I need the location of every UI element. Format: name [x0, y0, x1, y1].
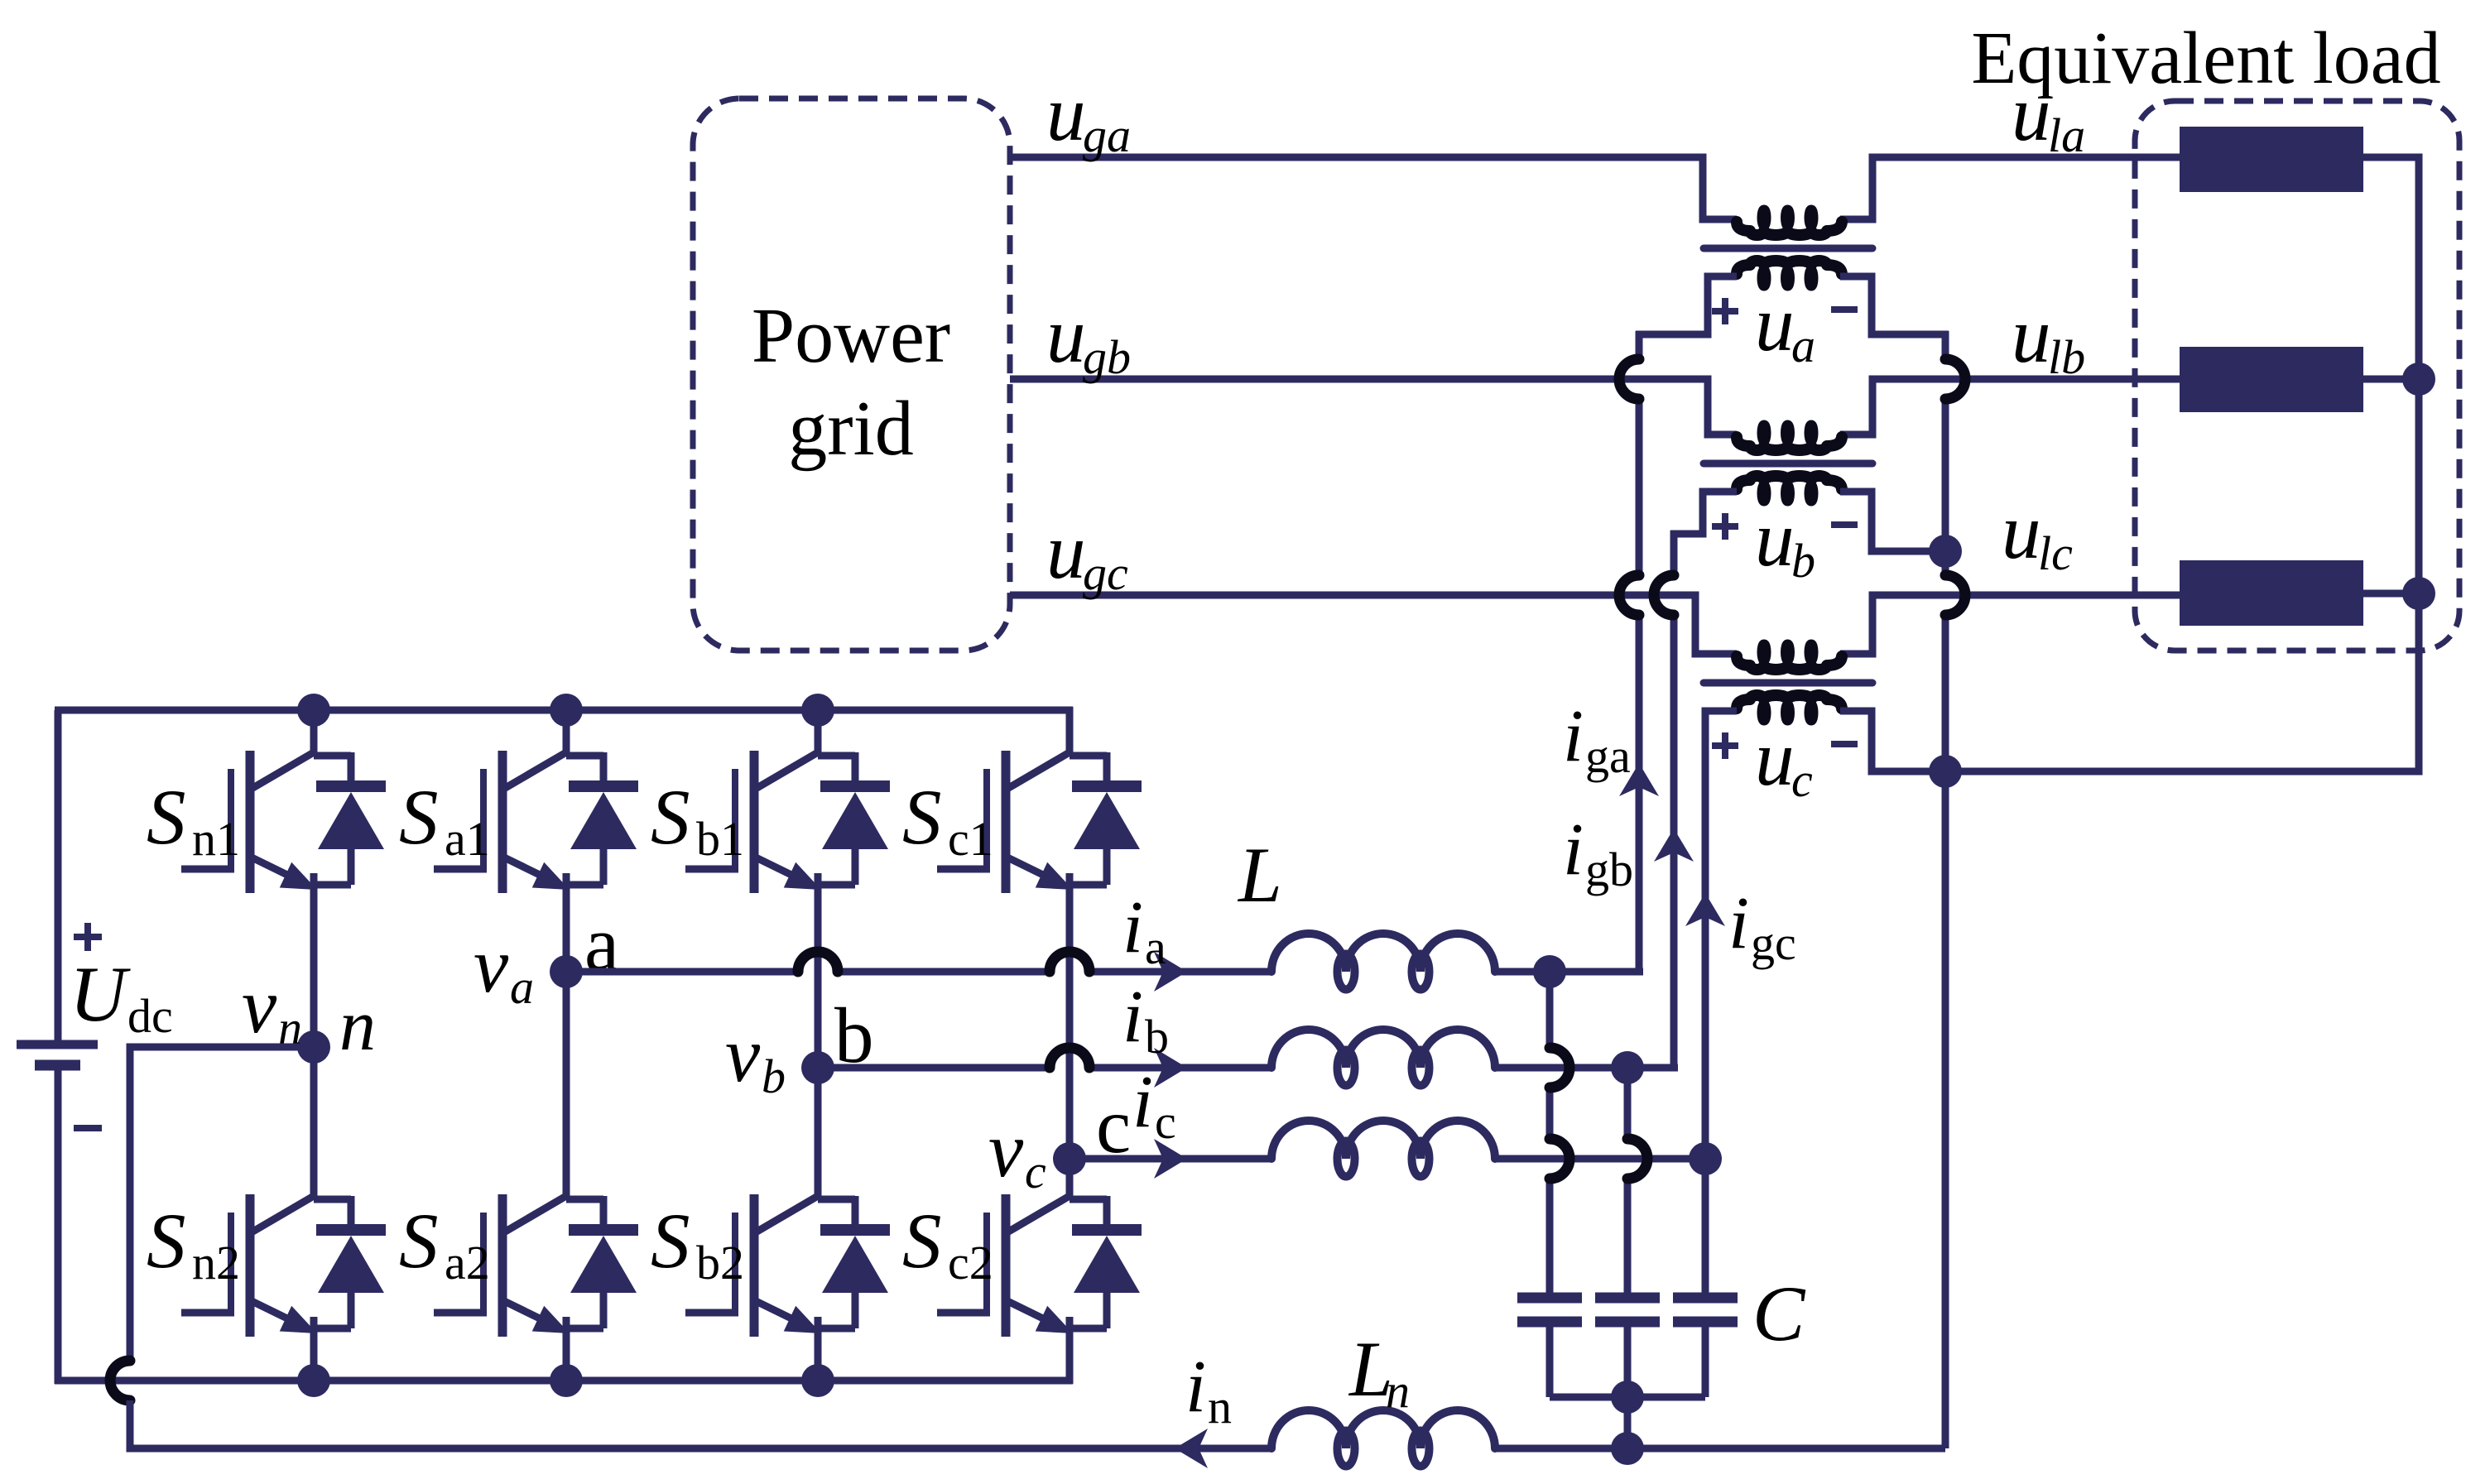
svg-text:n: n — [1208, 1380, 1232, 1434]
hop bus over u_lc — [1945, 575, 1965, 615]
transformer Tb minus sign — [1831, 521, 1858, 528]
wire secondary Ta left — [1636, 276, 1737, 334]
node neutral junction — [1611, 1432, 1644, 1465]
node Tc minus junction — [1929, 755, 1962, 788]
node filter a — [1533, 955, 1566, 988]
svg-text:S: S — [399, 1197, 439, 1285]
svg-text:Equivalent load: Equivalent load — [1971, 17, 2440, 99]
svg-text:S: S — [399, 773, 439, 861]
node a (v_a) — [550, 955, 583, 988]
svg-text:ga: ga — [1585, 729, 1631, 783]
wire u_la — [1840, 157, 2180, 219]
hop n-wire over DC- rail — [110, 1361, 130, 1400]
svg-text:n1: n1 — [192, 812, 240, 866]
wire cap bus to neutral — [1624, 1397, 1632, 1448]
transformer Ta secondary winding — [1737, 261, 1842, 274]
svg-text:c2: c2 — [948, 1236, 993, 1289]
node filter c — [1689, 1142, 1722, 1175]
svg-text:gc: gc — [1083, 546, 1128, 600]
wire Sc2 emitter to rail — [1066, 1329, 1074, 1381]
svg-text:i: i — [1563, 695, 1584, 777]
wire Sb1 collector — [815, 710, 822, 752]
svg-text:b: b — [762, 1049, 786, 1103]
node load c right — [2402, 577, 2435, 610]
wire leg c collector stub — [1066, 707, 1074, 751]
svg-text:S: S — [147, 1197, 186, 1285]
svg-text:c: c — [1025, 1145, 1046, 1198]
capacitor Ca top plate — [1517, 1293, 1582, 1304]
svg-text:i: i — [1185, 1346, 1206, 1428]
wire n to bottom — [130, 1047, 314, 1361]
hop phase a over leg b — [798, 952, 838, 972]
svg-text:c: c — [1791, 753, 1813, 807]
capacitor Cc bottom plate — [1673, 1317, 1738, 1328]
svg-text:la: la — [2048, 108, 2085, 162]
capacitor Cb top plate — [1595, 1293, 1660, 1304]
hop phase b over leg c — [1050, 1048, 1089, 1068]
node DC+ rail x=379 — [297, 694, 330, 727]
node DC+ rail x=684 — [550, 694, 583, 727]
svg-text:ga: ga — [1083, 108, 1131, 162]
svg-text:S: S — [902, 1197, 942, 1285]
svg-text:i: i — [1122, 976, 1143, 1058]
svg-text:a: a — [510, 960, 534, 1014]
svg-text:a: a — [1145, 920, 1166, 974]
wire load c right — [2363, 590, 2419, 598]
wire capacitor bus — [1550, 1394, 1705, 1401]
svg-text:c: c — [1155, 1095, 1176, 1149]
transistor Sb2 (IGBT with diode) — [685, 1194, 890, 1337]
wire load b right — [2363, 376, 2419, 383]
wire neutral right — [1495, 1445, 1945, 1453]
inductor L phase b — [1271, 1030, 1495, 1068]
svg-text:n: n — [339, 986, 376, 1066]
wire u_gc — [1010, 595, 1737, 654]
arrow i_gb — [1654, 828, 1694, 862]
svg-text:i: i — [1728, 882, 1749, 964]
svg-text:a2: a2 — [445, 1236, 490, 1289]
node n — [297, 1030, 330, 1064]
wire secondary Tb right — [1840, 492, 1945, 551]
svg-text:v: v — [242, 962, 277, 1049]
arrow i_a — [1154, 952, 1187, 992]
hop cap-a wire over phase b — [1550, 1048, 1569, 1088]
wire Sc1 collector — [1066, 710, 1074, 752]
svg-text:grid: grid — [788, 386, 913, 472]
wire DC positive rail top — [55, 707, 1073, 714]
wire Sn1 emitter to node — [310, 886, 318, 1047]
hop i_ga over u_gc — [1619, 575, 1639, 615]
node DC- rail x=988 — [801, 1364, 834, 1397]
node Tb minus junction — [1929, 535, 1962, 568]
transformer Tc core — [1704, 680, 1872, 687]
transistor Sb1 (IGBT with diode) — [685, 751, 890, 893]
arrow i_ga — [1619, 763, 1659, 796]
node DC+ rail x=988 — [801, 694, 834, 727]
hop i_ga over u_gb — [1619, 359, 1639, 399]
svg-text:n: n — [1386, 1364, 1410, 1418]
wire leg c emitter stub — [1066, 1331, 1074, 1384]
wire phase c output — [1070, 1155, 1271, 1163]
transformer Ta primary winding — [1737, 222, 1842, 235]
arrow i_b — [1154, 1048, 1187, 1088]
power grid dashed box — [693, 98, 1010, 651]
svg-text:S: S — [651, 773, 690, 861]
wire DC positive rail left — [55, 710, 62, 1040]
svg-text:i: i — [1132, 1061, 1153, 1143]
node capacitor bus — [1611, 1381, 1644, 1414]
wire Sc1 emitter to node — [1066, 886, 1074, 1159]
capacitor Cb bottom plate — [1595, 1317, 1660, 1328]
wire u_lc — [1840, 595, 2180, 654]
battery U_dc short plate — [35, 1060, 80, 1071]
wire Sa1 collector — [563, 710, 570, 752]
inductor L phase a — [1271, 934, 1495, 972]
wire phase a output — [566, 968, 797, 976]
svg-text:u: u — [1755, 280, 1795, 367]
svg-text:u: u — [1755, 714, 1795, 802]
hop cap-b wire over phase c — [1627, 1139, 1647, 1179]
wire node a to i_ga corner — [1550, 968, 1643, 976]
node load b right — [2402, 363, 2435, 396]
arrow i_n — [1175, 1429, 1208, 1468]
load resistor R_lb — [2180, 347, 2363, 412]
svg-text:lc: lc — [2038, 526, 2073, 580]
svg-text:u: u — [2012, 291, 2051, 379]
transformer Ta minus sign — [1831, 306, 1858, 313]
wire coil b to node — [1495, 1064, 1627, 1072]
transformer Tc secondary winding — [1737, 695, 1842, 708]
transistor Sa1 (IGBT with diode) — [434, 751, 638, 893]
svg-text:b: b — [1145, 1010, 1169, 1064]
wire u_lb — [1840, 379, 2180, 435]
svg-text:L: L — [1237, 831, 1282, 919]
wire i_ga vertical — [1636, 331, 1643, 359]
wire i_gb vertical — [1670, 531, 1678, 575]
svg-text:S: S — [651, 1197, 690, 1285]
wire n bottom corner — [130, 1400, 1271, 1448]
svg-text:a1: a1 — [445, 812, 490, 866]
svg-text:S: S — [902, 773, 942, 861]
svg-text:b: b — [1791, 534, 1815, 588]
equivalent load dashed box — [2135, 101, 2459, 651]
node filter b — [1611, 1051, 1644, 1084]
wire phase b output — [818, 1064, 1049, 1072]
battery U_dc long plate — [17, 1040, 98, 1049]
wire Cb bottom lead — [1624, 1327, 1632, 1397]
wire load right bus — [1945, 157, 2419, 771]
transistor Sc2 (IGBT with diode) — [937, 1194, 1142, 1337]
node b (v_b) — [801, 1051, 834, 1084]
wire cap c vertical — [1702, 1159, 1709, 1294]
transformer Tc minus sign — [1831, 741, 1858, 747]
transformer Tb primary winding — [1737, 437, 1842, 450]
wire cap b vertical — [1624, 1068, 1632, 1139]
transistor Sn2 (IGBT with diode) — [181, 1194, 386, 1337]
transformer Tc plus sign — [1712, 742, 1738, 749]
svg-text:b2: b2 — [696, 1236, 744, 1289]
hop bus over u_lb — [1945, 359, 1965, 399]
wire coil a to node — [1495, 968, 1550, 976]
svg-text:u: u — [1046, 507, 1086, 595]
wire Sn1 collector — [310, 710, 318, 752]
svg-text:c1: c1 — [948, 812, 993, 866]
wire coil c to node — [1495, 1155, 1705, 1163]
wire Sn2 emitter to rail — [310, 1329, 318, 1381]
wire secondary Ta right — [1840, 276, 1949, 334]
transformer Tb secondary winding — [1737, 476, 1842, 489]
inductor L_n — [1271, 1410, 1495, 1448]
svg-text:n2: n2 — [192, 1236, 240, 1289]
wire secondary Tc right — [1840, 711, 1945, 771]
transformer Tb plus sign — [1712, 523, 1738, 530]
svg-text:lb: lb — [2048, 330, 2085, 384]
load resistor R_lc — [2180, 560, 2363, 626]
hop cap-a wire over phase c — [1550, 1139, 1569, 1179]
node DC- rail x=684 — [550, 1364, 583, 1397]
svg-text:v: v — [988, 1106, 1024, 1193]
wire Sn2 collector — [310, 1047, 318, 1196]
transformer Tb core — [1704, 460, 1872, 468]
node c (v_c) — [1053, 1142, 1086, 1175]
wire Sb2 collector — [815, 1068, 822, 1196]
svg-text:u: u — [1755, 495, 1795, 583]
wire Sc2 collector — [1066, 1159, 1074, 1196]
wire u_ga — [1010, 157, 1737, 219]
svg-text:v: v — [473, 921, 509, 1009]
transformer Ta core — [1704, 245, 1872, 252]
wire Cc bottom lead — [1702, 1327, 1709, 1397]
inductor L phase c — [1271, 1121, 1495, 1159]
svg-text:dc: dc — [127, 989, 173, 1043]
battery plus sign — [74, 934, 102, 940]
capacitor Ca bottom plate — [1517, 1317, 1582, 1328]
svg-text:i: i — [1122, 886, 1143, 968]
svg-text:C: C — [1752, 1270, 1806, 1357]
svg-text:gc: gc — [1751, 916, 1796, 970]
svg-text:U: U — [70, 950, 131, 1038]
transistor Sc1 (IGBT with diode) — [937, 751, 1142, 893]
svg-text:u: u — [2002, 487, 2041, 575]
wire Sb1 emitter to node — [815, 886, 822, 1068]
svg-text:b1: b1 — [696, 812, 744, 866]
load resistor R_la — [2180, 127, 2363, 192]
wire DC negative rail left — [55, 1069, 62, 1384]
svg-text:i: i — [1563, 809, 1584, 891]
transformer Tc primary winding — [1737, 656, 1842, 670]
svg-text:gb: gb — [1585, 843, 1633, 896]
svg-text:u: u — [1046, 291, 1086, 379]
wire u_gb — [1010, 379, 1737, 435]
svg-text:S: S — [147, 773, 186, 861]
battery minus sign — [74, 1125, 102, 1131]
svg-text:Power: Power — [752, 293, 950, 379]
svg-text:gb: gb — [1083, 330, 1131, 384]
transistor Sa2 (IGBT with diode) — [434, 1194, 638, 1337]
hop i_gb over u_gc — [1654, 575, 1674, 615]
wire node b to i_gb corner — [1627, 1064, 1678, 1072]
svg-text:v: v — [725, 1011, 761, 1098]
transformer Ta plus sign — [1712, 308, 1738, 315]
wire cap a vertical — [1546, 972, 1554, 1048]
arrow i_c — [1154, 1139, 1187, 1179]
node DC- rail x=379 — [297, 1364, 330, 1397]
wire Sa2 collector — [563, 972, 570, 1196]
arrow i_gc — [1685, 893, 1725, 926]
wire Sa2 emitter to rail — [563, 1329, 570, 1381]
svg-text:a: a — [1791, 319, 1815, 372]
svg-text:u: u — [1046, 70, 1086, 157]
wire common secondary bus — [1942, 331, 1949, 359]
capacitor Cc top plate — [1673, 1293, 1738, 1304]
transistor Sn1 (IGBT with diode) — [181, 751, 386, 893]
wire Sb2 emitter to rail — [815, 1329, 822, 1381]
wire secondary Tc left — [1705, 711, 1737, 1159]
wire Ca bottom lead — [1546, 1327, 1554, 1397]
hop phase a over leg c — [1050, 952, 1089, 972]
wire secondary Tb left — [1670, 492, 1737, 534]
wire Sa1 emitter to node — [563, 886, 570, 972]
